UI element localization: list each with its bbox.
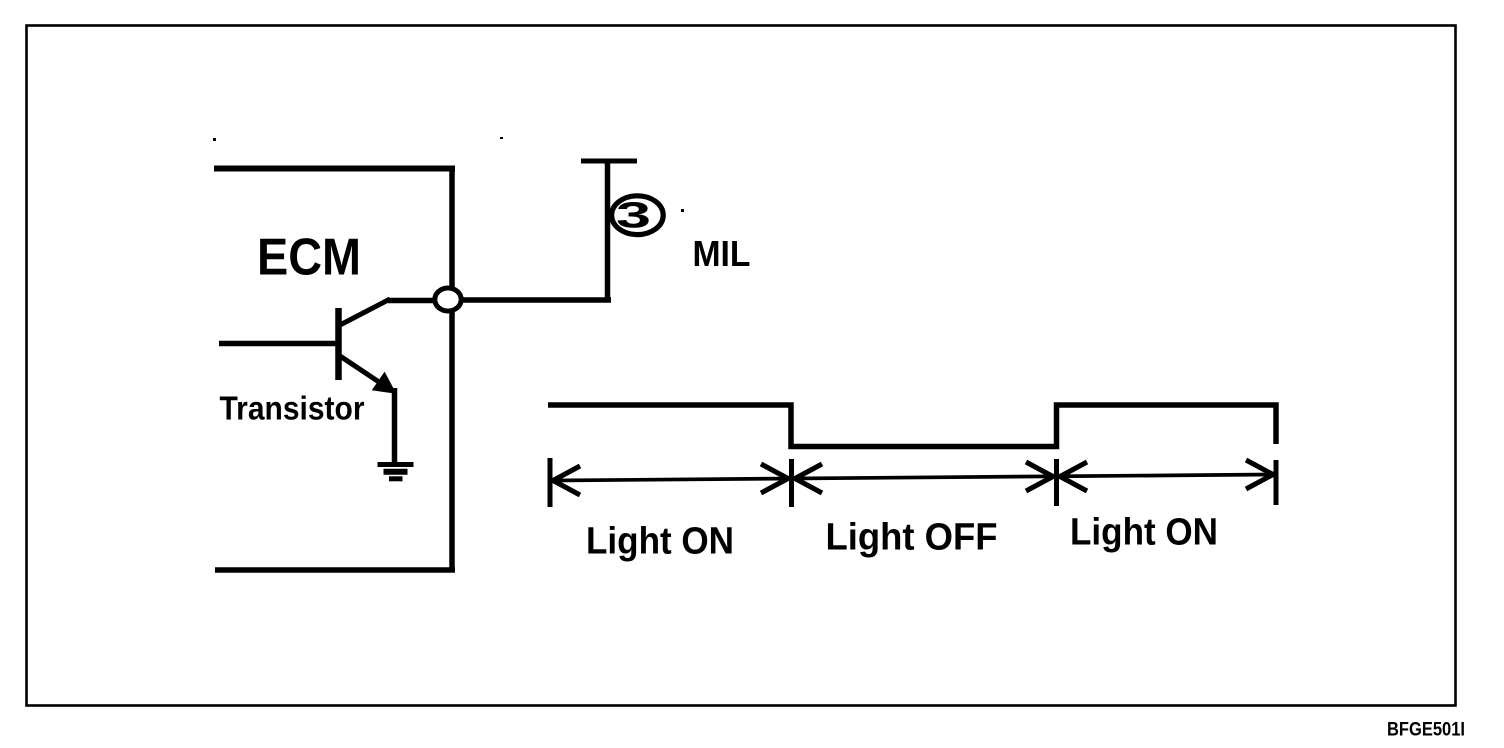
svg-text:Light OFF: Light OFF [826, 517, 998, 559]
svg-text:BFGE501I: BFGE501I [1387, 720, 1465, 741]
arrowhead left of segment3 [1060, 462, 1087, 491]
arrowhead right of segment3 [1246, 460, 1273, 489]
wire emitter drop [392, 388, 398, 462]
wire node to lamp [461, 297, 611, 303]
lamp MIL bulb [612, 196, 664, 235]
arrowhead left of segment2 [795, 464, 822, 493]
arrowhead right of segment2 [1026, 462, 1053, 491]
arrowhead left of segment1 [553, 466, 580, 495]
wire ECM top [214, 166, 455, 172]
svg-text:Light ON: Light ON [586, 521, 734, 563]
dimension shaft [552, 475, 1274, 481]
svg-text:Transistor: Transistor [220, 391, 365, 428]
waveform [548, 405, 1276, 447]
wire transistor base [219, 341, 337, 347]
power feed bar [581, 159, 637, 164]
tick 4 [1274, 460, 1279, 505]
svg-text:MIL: MIL [693, 233, 751, 274]
svg-text:Light ON: Light ON [1070, 512, 1218, 554]
speck 1 [213, 138, 216, 141]
wire ECM bottom [215, 567, 455, 573]
tick 2 [789, 459, 794, 507]
tick 3 [1054, 459, 1059, 506]
node junction [435, 288, 461, 311]
arrowhead right of segment1 [761, 464, 788, 493]
speck 2 [500, 137, 503, 139]
transistor Q1 [339, 299, 395, 393]
tick 1 [548, 458, 553, 507]
ground [378, 465, 414, 479]
wire collector to node [388, 298, 436, 304]
wire ECM right vertical [449, 166, 455, 571]
svg-text:ECM: ECM [257, 229, 361, 287]
speck 3 [681, 209, 684, 212]
svg-text:3: 3 [616, 195, 651, 236]
wire power to lamp [605, 159, 611, 302]
